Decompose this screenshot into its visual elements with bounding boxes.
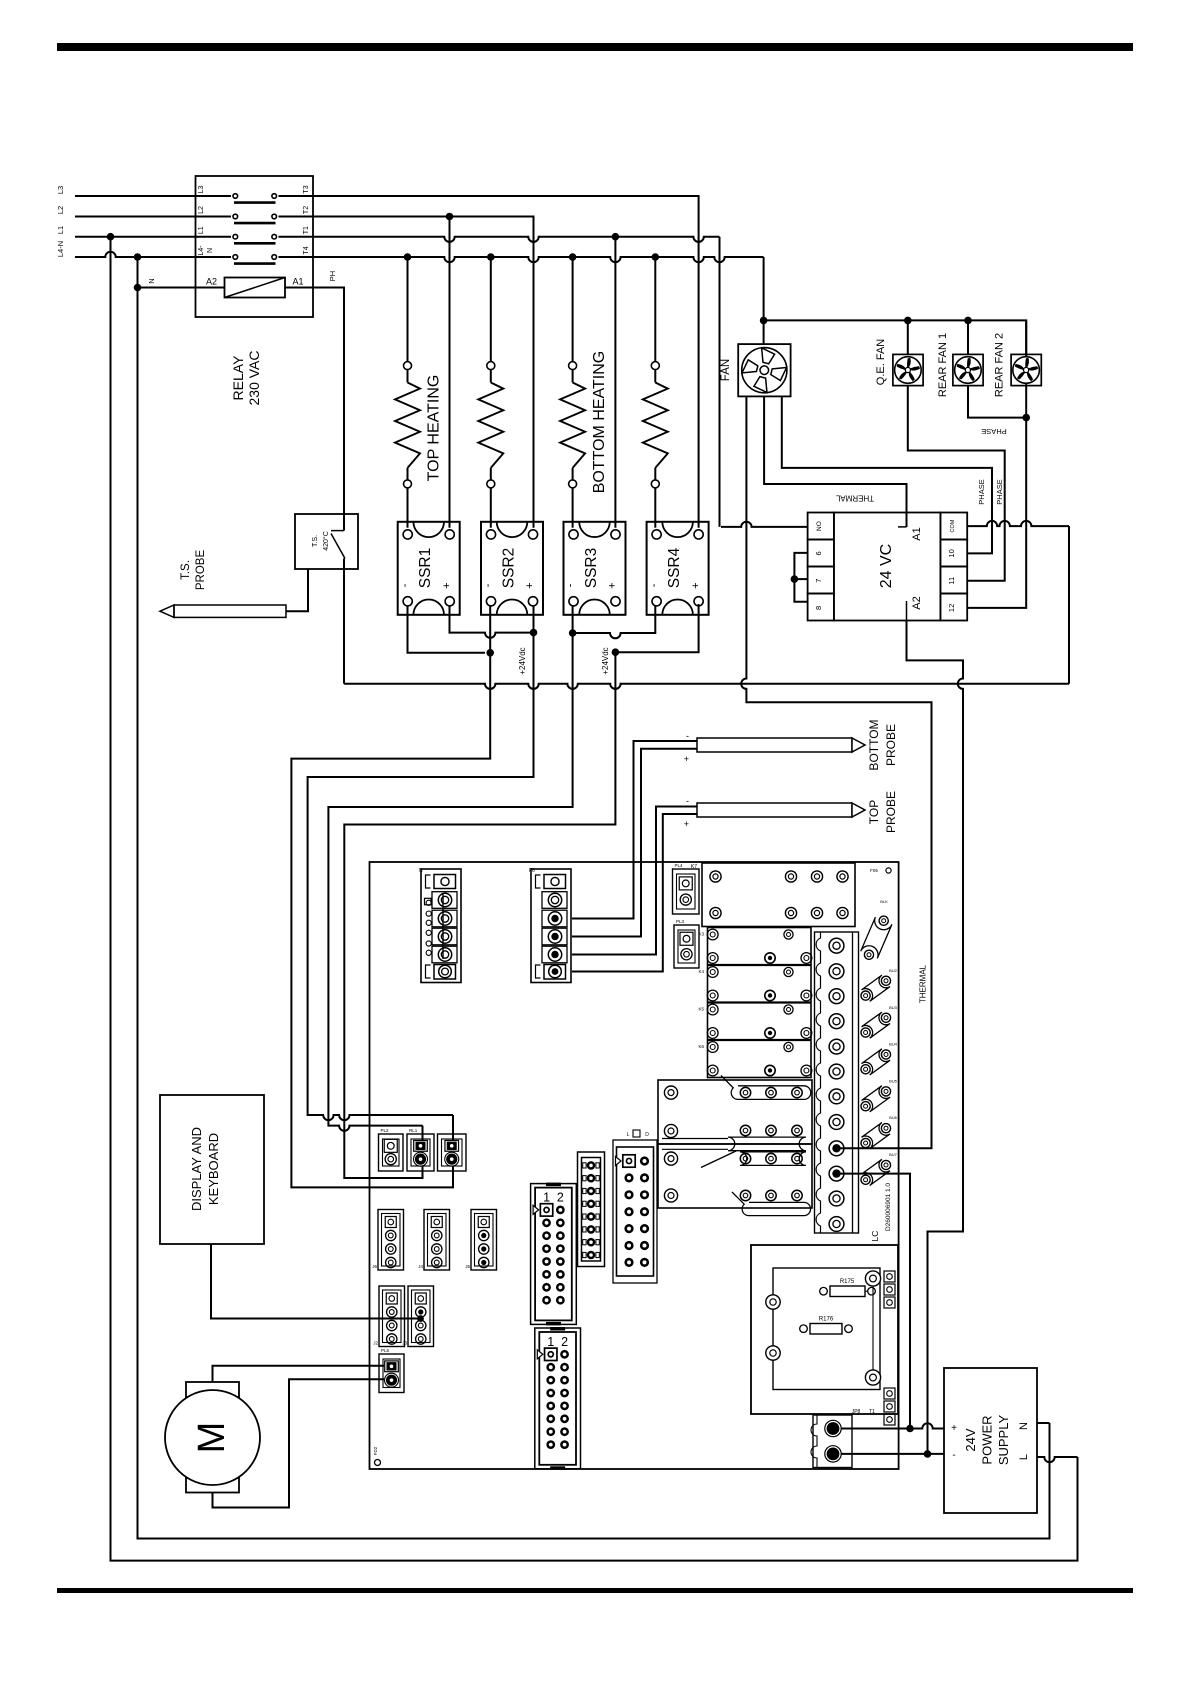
svg-text:L4-N: L4-N [56,241,65,257]
svg-text:7: 7 [814,579,823,583]
24VC terminal 6 [808,540,834,567]
svg-text:L4-: L4- [198,245,205,256]
TOP PROBE [697,803,852,817]
wire Q.E. fan to 24VC 11 [908,385,1005,581]
track stadium row3 [740,1152,806,1166]
wire motor top to PL6 pin1 [213,1366,385,1382]
svg-text:L3: L3 [198,186,205,194]
svg-text:TOP HEATING: TOP HEATING [426,375,443,482]
heating element 4 [654,257,656,362]
svg-text:A2: A2 [911,596,923,609]
wire T1 down to 24VC NO [719,237,721,527]
svg-text:THERMAL: THERMAL [919,964,928,1003]
wire SSR1+ to SSR2+ [450,606,534,638]
wire rear fans to 24VC 12 [967,418,1026,608]
wire L3 supply line [75,195,195,197]
svg-text:J6: J6 [372,1264,377,1269]
connector J2 4-pin [379,1286,405,1347]
node L1 junction [107,233,115,241]
track stadium row1 [721,1076,811,1100]
header single column 8 pin [578,1152,605,1267]
heating element 1 [407,257,409,362]
svg-text:D260006901 1.0: D260006901 1.0 [885,1183,892,1231]
wire fan feed [763,320,765,344]
wire SSR2+ control down-left [308,606,534,1115]
wire motor bottom to PL6 pin2 [213,1379,385,1507]
node heater feed x=407.5 [404,253,412,261]
wire FAN middle to 24VC A1 [764,396,906,527]
svg-text:-: - [648,583,660,587]
wire rear fans common [968,386,1026,418]
svg-text:+: + [684,819,689,829]
BOTTOM PROBE [697,738,852,752]
24VC terminal 11 [940,567,967,594]
R176 board pads [766,1295,780,1309]
svg-text:KEYBOARD: KEYBOARD [206,1133,221,1205]
header J9 2x8 lower with 1 2 labels [535,1328,581,1469]
jumper BU7 stadium [862,1159,891,1185]
24VC terminal COM [940,513,967,540]
svg-text:F6: F6 [529,868,535,874]
wire JP8 minus to supply [841,1453,944,1455]
header J1 2x8 with 1 2 labels [531,1184,577,1325]
svg-text:K7: K7 [691,864,697,870]
svg-text:BOTTOM HEATING: BOTTOM HEATING [591,351,608,494]
relay contact L2-T2 [195,216,231,218]
track stadium row4 [732,1192,811,1216]
connector RL1 2-pin [407,1134,434,1171]
connector J4 4-pin [424,1210,450,1271]
svg-text:FD2: FD2 [373,1446,378,1455]
svg-text:F05: F05 [870,868,878,873]
svg-text:A2: A2 [206,277,217,287]
R176 board side pads lower [884,1388,895,1399]
svg-text:POWER: POWER [980,1415,995,1464]
terminal strip edge connector [815,932,859,1233]
svg-text:BU4: BU4 [889,1042,898,1047]
svg-text:BU3: BU3 [889,1005,898,1010]
jumper BU5 stadium [862,1086,891,1112]
svg-text:BU6: BU6 [889,1115,898,1120]
svg-text:Q.E. FAN: Q.E. FAN [875,339,887,386]
jumper BU3 stadium [862,1012,891,1038]
R176 board side pads upper [884,1271,895,1282]
jumper BU4 stadium [862,1049,891,1075]
relay K2 block [658,1144,812,1208]
svg-text:T.S.: T.S. [312,535,319,547]
svg-text:L2: L2 [56,206,65,214]
svg-text:PL4: PL4 [675,863,684,868]
svg-text:PHASE: PHASE [981,427,1006,436]
wire N to coil A2 [138,287,225,289]
svg-text:TOP: TOP [867,800,881,824]
svg-text:L: L [1018,1454,1030,1460]
svg-text:PL6: PL6 [381,1348,390,1353]
wire L2 branch to SSR1 [449,217,451,528]
svg-text:N: N [207,248,214,253]
svg-text:230 VAC: 230 VAC [246,351,262,406]
wire supply N out [1037,1422,1050,1424]
wire strip pad to supply plus [840,1174,910,1429]
wire A1 stub [898,526,907,528]
wire PH from coil A1 to T.S. [285,288,344,515]
svg-text:+: + [951,1423,957,1434]
wire PH bus below SSRs [344,684,1069,689]
Q.E. FAN [893,354,923,385]
svg-text:COM: COM [950,519,956,532]
svg-text:A1: A1 [911,527,923,540]
svg-text:RL1: RL1 [409,1128,418,1133]
svg-text:6: 6 [814,551,823,555]
svg-text:J4: J4 [418,1264,423,1269]
svg-text:+: + [607,582,619,588]
svg-text:-: - [399,583,411,587]
svg-text:PH: PH [328,271,337,281]
strip pad y=1148.3 [829,1141,844,1156]
wire T1 bus to SSR3 and 24VC NO [315,237,720,242]
svg-text:+: + [684,754,689,764]
svg-text:8: 8 [814,606,823,610]
svg-text:L2: L2 [198,206,205,214]
svg-text:1: 1 [543,1191,550,1205]
connector JP8 [813,1415,852,1468]
strip pad y=1096.4 [829,1089,844,1104]
SSR3 solid state relay [564,522,626,615]
connector N side pin circles [425,898,432,905]
svg-text:PL2: PL2 [381,1128,390,1133]
svg-text:24V: 24V [963,1428,978,1451]
bottom border bar [57,1588,1133,1593]
REAR FAN 1 [953,354,983,385]
R176 resistor board outline [751,1245,898,1414]
svg-text:T4: T4 [303,246,310,254]
svg-text:R176: R176 [819,1317,834,1323]
svg-text:-: - [482,583,494,587]
wire L1 supply line [75,236,195,238]
wire T4/N bus to heaters and fans [315,257,764,262]
wire A2 stub down to supply minus [906,601,908,621]
wire top probe - [572,807,697,955]
svg-text:K3: K3 [698,932,704,937]
svg-text:420°C: 420°C [322,531,330,551]
svg-text:JP8: JP8 [852,1409,861,1415]
wire NO to T1 phase [721,522,808,527]
svg-text:SSR4: SSR4 [666,547,683,588]
svg-text:J5: J5 [465,1264,470,1269]
relay contact L4--T4 [195,256,231,258]
svg-text:R175: R175 [840,1279,855,1285]
fan neutral bus [764,320,1027,355]
wire display to board J3 [211,1244,421,1319]
svg-text:-: - [686,796,689,806]
wire JP8 plus to supply [841,1423,944,1428]
jumper BLK vertical stadium [861,917,892,958]
strip pad y=1122 [829,1115,844,1130]
top border bar [57,43,1133,51]
relay 230VAC contactor box [196,176,314,317]
svg-text:PHASE: PHASE [995,479,1004,504]
svg-text:+24Vdc: +24Vdc [518,647,527,674]
resistor R176 [810,1324,842,1335]
svg-text:BU2: BU2 [889,968,898,973]
wire FAN left / thermal to PCB pad [741,396,931,1148]
24VC terminal 10 [940,540,967,567]
FAN main blower box [738,344,790,396]
svg-text:J2: J2 [373,1341,378,1346]
svg-text:DISPLAY AND: DISPLAY AND [189,1127,204,1211]
svg-text:N: N [147,278,156,283]
svg-text:LC: LC [870,1231,880,1242]
SSR2 solid state relay [481,522,543,615]
node N junction [134,253,142,261]
node heater feed x=655.3 [652,253,660,261]
svg-text:SSR3: SSR3 [583,548,600,589]
svg-text:-: - [952,1450,955,1461]
svg-text:N: N [419,868,423,874]
24VC terminal NO [808,513,834,540]
connector PL2 2-pin [379,1134,404,1171]
svg-text:L1: L1 [198,226,205,234]
svg-text:THERMAL: THERMAL [835,494,874,503]
T.S. 420C thermal switch box [295,514,358,569]
svg-text:REAR FAN 2: REAR FAN 2 [994,333,1006,397]
svg-text:BOTTOM: BOTTOM [867,719,881,770]
strip pad y=1046.6 [829,1039,844,1054]
wire T3/L3 bus to SSR4 [315,196,699,528]
svg-text:-: - [565,583,577,587]
svg-text:BU5: BU5 [889,1078,898,1083]
jumper BU2 stadium [862,975,891,1001]
motor M [186,1382,239,1397]
connector J6 4-pin [378,1210,404,1271]
svg-text:12: 12 [947,604,956,612]
svg-text:11: 11 [947,577,956,585]
svg-text:T2: T2 [303,206,310,214]
svg-text:L: L [627,1132,630,1138]
wire T1 branch to SSR3 [614,237,616,528]
connector J3 4-pin [408,1286,434,1347]
svg-text:REAR FAN 1: REAR FAN 1 [937,333,949,397]
svg-text:PROBE: PROBE [884,724,898,766]
connector N internal link [442,894,444,959]
svg-text:L1: L1 [56,226,65,234]
SSR1 solid state relay [398,522,460,615]
svg-text:J3: J3 [402,1341,407,1346]
svg-text:N: N [1018,1422,1030,1430]
svg-text:BLK: BLK [880,899,888,904]
track diagonal row3 [701,1151,736,1168]
wire bottom probe - [572,741,697,919]
svg-text:K6: K6 [698,1044,704,1049]
wire L1 phase down-left rail to supply L [111,237,1078,1561]
wire COM to PH bus [967,521,1069,526]
connector F6 6-pin terminal [531,869,571,983]
strip pad y=1071.5 [829,1064,844,1079]
strip pad y=971.3 [829,964,844,979]
wire L2 supply line [75,216,195,218]
REAR FAN 2 [1011,354,1041,385]
svg-text:2: 2 [561,1335,568,1349]
T.S. probe [160,605,174,617]
wire N bus down to fan neutral bus [763,257,765,320]
DISPLAY AND KEYBOARD box [160,1095,264,1244]
connector PL3 2-pin [674,925,699,968]
node heater feed x=490.8 [487,253,495,261]
connector PL6 2-pin [379,1354,404,1393]
wire T.S. probe to switch [286,569,308,611]
svg-text:T.S.: T.S. [180,560,192,580]
wire SSR2- control down-left [291,606,490,1188]
24VC fan controller block [834,513,941,621]
svg-text:+: + [524,582,536,588]
strip pad y=945.7 [829,938,844,953]
24VC terminal 8 [808,594,834,621]
svg-text:T3: T3 [303,185,310,193]
svg-text:RELAY: RELAY [230,355,246,401]
24VC terminal 7 [808,567,834,594]
svg-text:+24Vdc: +24Vdc [601,647,610,674]
jumper 6-7-8 [794,553,807,602]
wire SSR3+ to SSR4+ [615,604,698,652]
svg-text:24 VC: 24 VC [878,544,895,588]
24VC terminal 12 [940,594,967,621]
svg-text:T1: T1 [869,1409,875,1415]
strip pad y=1198.5 [829,1191,844,1206]
wire bottom probe + [572,749,697,937]
relay contact L1-T1 [195,236,231,238]
svg-text:FAN: FAN [720,359,732,381]
svg-text:-: - [686,731,689,741]
resistor R175 [830,1286,865,1297]
SSR4 solid state relay [647,522,709,615]
relay contact L3-T3 [195,195,231,197]
svg-text:A1: A1 [293,277,304,287]
svg-text:+: + [441,582,453,588]
svg-text:PROBE: PROBE [884,791,898,833]
strip pad y=1173.6 [829,1166,844,1181]
svg-text:10: 10 [947,549,956,557]
strip pad y=996.2 [829,989,844,1004]
svg-text:1: 1 [547,1335,554,1349]
svg-text:L3: L3 [56,186,65,194]
svg-text:BU7: BU7 [889,1152,898,1157]
wire SSR3+ control down-left [344,652,615,1178]
wire T2/L2 bus to SSR1+SSR2 [315,217,534,528]
heating element 2 [490,257,492,362]
header LCD 2x7 [613,1140,657,1283]
relay K7 block [702,863,855,927]
wire SSR3- control down-left [328,633,572,1126]
heating element 3 [572,257,574,362]
svg-text:D: D [645,1132,649,1138]
svg-text:NO: NO [816,521,823,531]
relay K1 block [658,1080,812,1144]
svg-text:M: M [191,1422,233,1454]
track stadium row2 [662,1139,728,1150]
24V POWER SUPPLY box [944,1368,1037,1513]
wire L4-N supply line [75,252,195,257]
wire FAN right to 24VC 10 [782,396,992,553]
connector PL4 2-pin [673,869,700,914]
svg-text:PHASE: PHASE [977,479,986,504]
connector N 6-pin terminal [421,869,461,983]
relay coil A1-A2 [225,278,286,298]
svg-text:2: 2 [557,1191,564,1205]
connector J5 4-pin [471,1210,497,1271]
wire SSR1- to SSR2- [408,606,486,653]
wire top probe + [572,814,697,972]
jumper BU6 stadium [862,1123,891,1149]
svg-text:+: + [690,582,702,588]
PCB main board outline [370,862,899,1469]
wire supply L out [1037,1457,1078,1462]
svg-text:SUPPLY: SUPPLY [996,1415,1011,1466]
svg-text:SSR2: SSR2 [501,548,518,589]
svg-text:K4: K4 [698,969,704,974]
svg-text:K5: K5 [698,1007,704,1012]
svg-text:PROBE: PROBE [195,550,207,591]
svg-text:SSR1: SSR1 [417,548,434,589]
wire N down-left rail to supply N [138,257,1050,1539]
strip pad y=1021.2 [829,1014,844,1029]
strip pad y=1224 [829,1217,844,1232]
connector 2-pin [438,1134,467,1171]
wire SSR3- to SSR4- [573,606,656,638]
relay stack K3-K6 [708,928,812,1078]
svg-text:PL3: PL3 [676,919,685,924]
svg-text:T1: T1 [303,226,310,234]
node heater feed x=572.6 [569,253,577,261]
